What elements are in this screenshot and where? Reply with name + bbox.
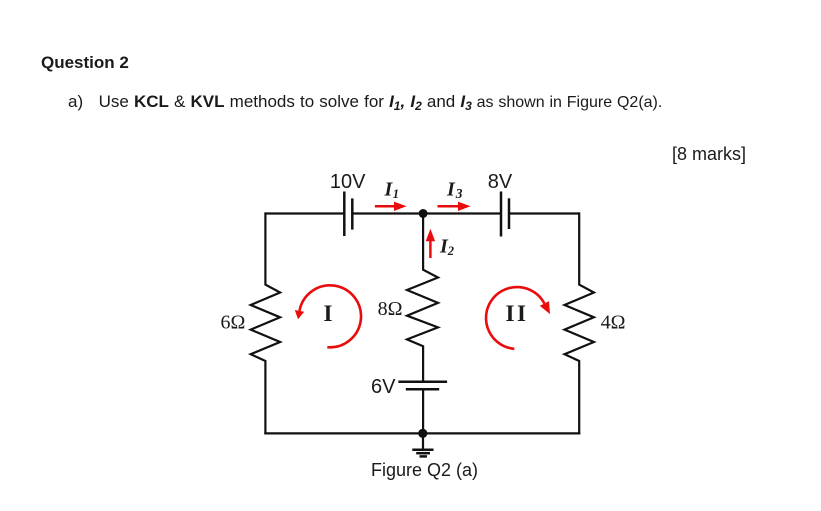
svg-text:6Ω: 6Ω — [220, 311, 245, 333]
svg-text:10V: 10V — [330, 171, 366, 193]
svg-text:I: I — [324, 301, 333, 326]
svg-text:6V: 6V — [371, 376, 396, 398]
svg-text:8Ω: 8Ω — [378, 298, 403, 320]
svg-text:8V: 8V — [488, 171, 513, 193]
svg-text:I3: I3 — [446, 178, 463, 201]
svg-text:I1: I1 — [384, 178, 400, 201]
svg-text:II: II — [506, 301, 529, 326]
svg-text:4Ω: 4Ω — [601, 312, 626, 334]
svg-text:I2: I2 — [439, 236, 454, 259]
